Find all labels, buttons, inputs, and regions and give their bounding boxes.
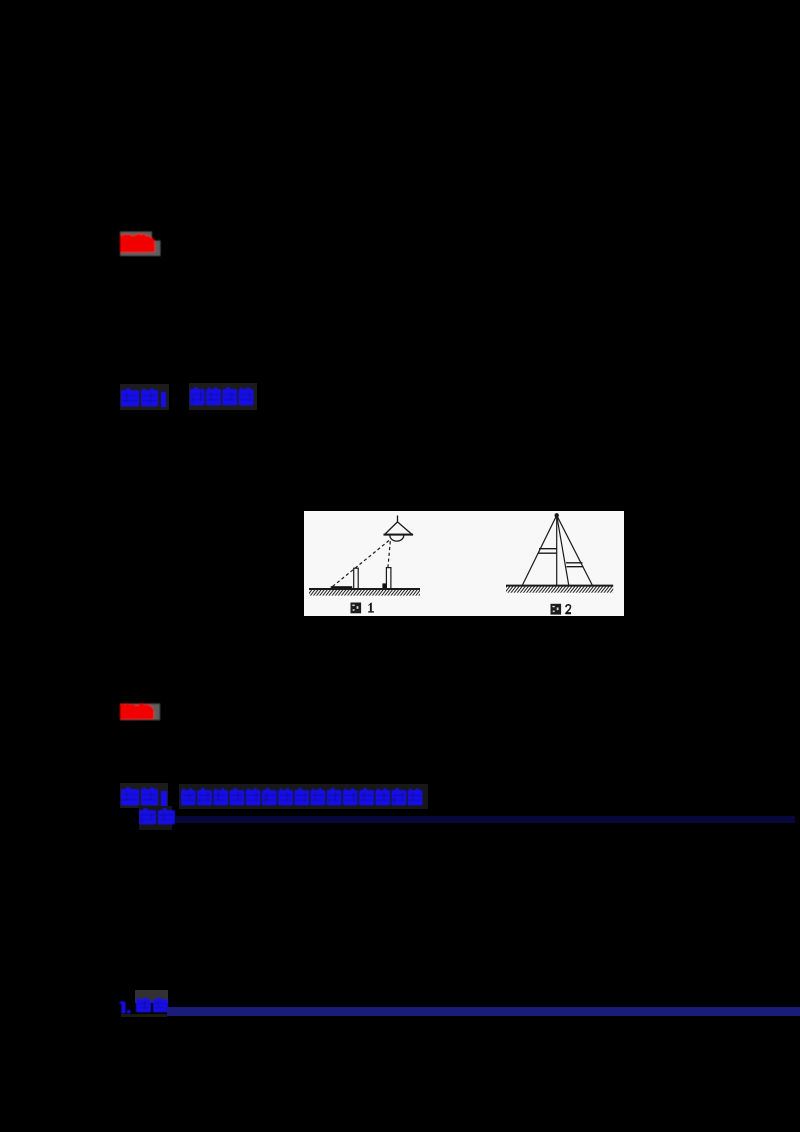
- fig2 right rung: [566, 562, 583, 564]
- fig2 mid slant: [557, 515, 569, 585]
- shadow 2: [382, 583, 386, 589]
- fig2 left slant: [523, 515, 557, 585]
- dashed ray right: [386, 541, 390, 584]
- ground 2: [506, 585, 613, 587]
- olive smudge: [121, 1014, 167, 1017]
- fig2 right slant: [557, 515, 593, 585]
- lamp wire: [397, 516, 399, 523]
- heading 2 blue text: [120, 783, 430, 811]
- label tu2: [551, 604, 572, 615]
- red tag 2: [118, 700, 166, 725]
- navy underline 1: [175, 816, 795, 823]
- heading 1 dark boxes: [120, 384, 169, 410]
- figure white box: [304, 511, 624, 616]
- post 1: [354, 568, 359, 589]
- small blue label bg: [139, 806, 172, 830]
- heading 1 blue text: [120, 383, 260, 413]
- bottom gray box: [135, 990, 168, 1003]
- navy band bottom: [167, 1007, 800, 1016]
- dashed ray left: [331, 541, 389, 589]
- bottom blue number and text: [119, 997, 171, 1017]
- post 2: [386, 568, 391, 589]
- fig2 vertical: [556, 515, 558, 585]
- lamp bulb: [390, 536, 404, 542]
- fig2 left rung: [539, 548, 557, 550]
- fig2 apex dot: [555, 513, 559, 517]
- lamp cone: [385, 522, 412, 535]
- red tag 1: [118, 229, 166, 260]
- small blue label: [139, 808, 179, 828]
- shadow 1: [331, 586, 353, 589]
- ground 1: [309, 588, 420, 590]
- heading 2 dark boxes: [120, 783, 168, 808]
- label tu1: [351, 603, 374, 614]
